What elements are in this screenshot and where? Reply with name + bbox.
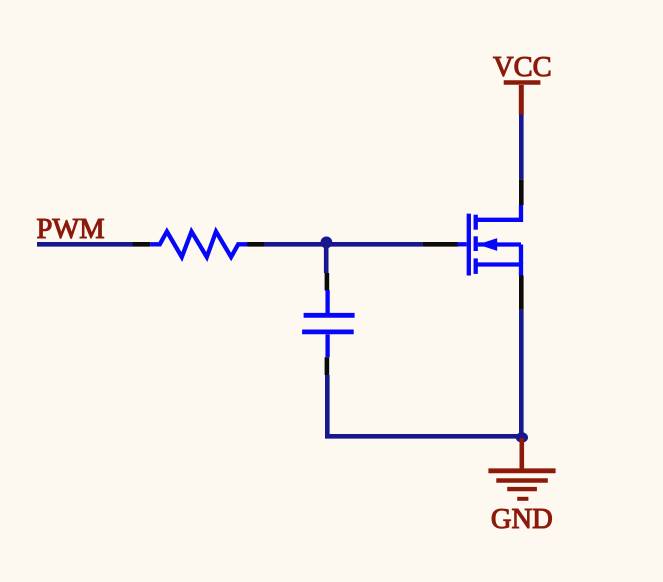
ground GND (488, 438, 555, 499)
svg-text:PWM: PWM (37, 214, 105, 245)
channel segment top (474, 215, 478, 230)
gate bar (467, 214, 471, 276)
wire node A to capacitor (324, 244, 329, 273)
source stub (476, 265, 521, 277)
capacitor C1 pin 1 (325, 273, 330, 291)
power port VCC (504, 83, 541, 115)
resistor R1 (150, 232, 247, 258)
body-source link (519, 245, 523, 265)
wire resistor to gate (264, 242, 423, 247)
body arrow (478, 238, 497, 251)
transistor Q1 source pin (519, 276, 524, 310)
resistor R1 pin 1 (133, 242, 151, 247)
junction node B (516, 432, 528, 442)
capacitor C1 (302, 290, 355, 357)
junction node A (321, 237, 333, 249)
transistor Q1 (458, 205, 521, 276)
wire VCC to drain (519, 114, 524, 180)
gate lead blue (458, 242, 467, 246)
svg-text:VCC: VCC (493, 52, 552, 83)
body stub (478, 242, 521, 246)
transistor Q1 gate pin (423, 242, 458, 247)
channel segment middle (474, 236, 478, 251)
svg-text:GND: GND (491, 504, 553, 535)
wire capacitor to ground node (327, 375, 522, 436)
capacitor C1 pin 2 (325, 357, 330, 375)
channel segment bottom (474, 258, 478, 274)
wire PWM to resistor (37, 242, 133, 247)
transistor Q1 drain pin (519, 179, 524, 205)
wire source to ground node (519, 310, 524, 437)
resistor R1 pin 2 (247, 242, 264, 247)
drain stub (476, 205, 521, 220)
